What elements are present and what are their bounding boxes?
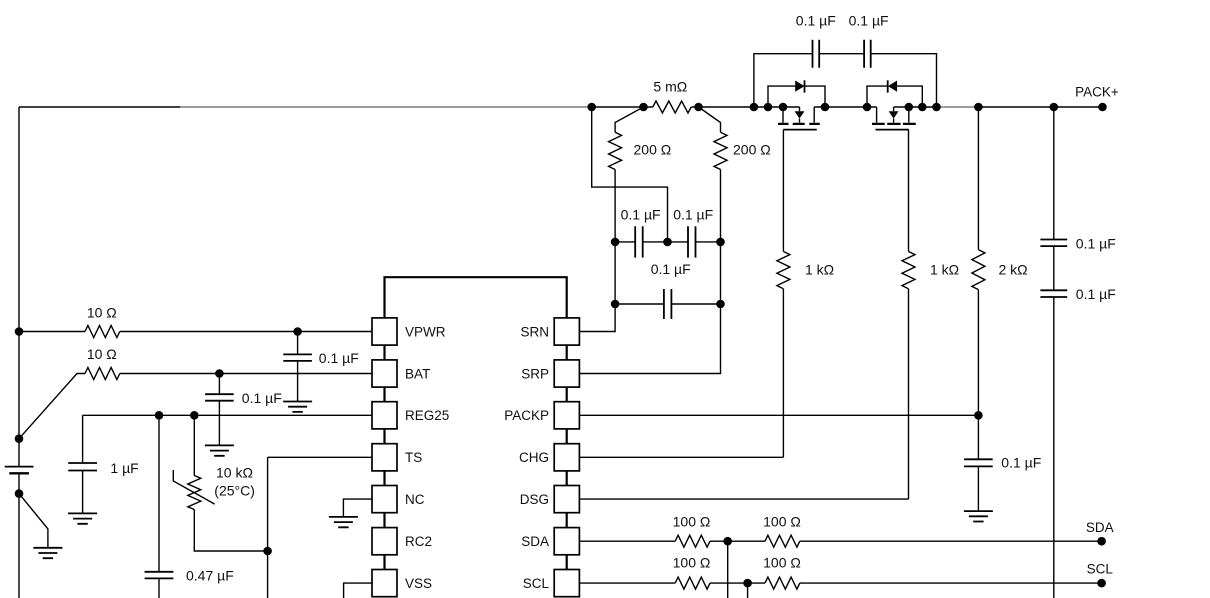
capacitor C7 0.1uF (PACKP) plates (964, 459, 993, 466)
ground C7 (964, 511, 993, 521)
U1 pin TS box (372, 444, 397, 471)
wire top rail gray segment (BAT+ net) (180, 106, 592, 108)
wire VPWR row right (120, 331, 372, 333)
capacitor C1 0.1uF top left plates (813, 40, 820, 68)
svg-text:SDA: SDA (521, 534, 549, 549)
svg-text:100 Ω: 100 Ω (673, 513, 711, 529)
transistor Q1 channel bars (778, 123, 820, 125)
thermistor RT1 zigzag (188, 476, 201, 510)
svg-text:VPWR: VPWR (405, 324, 446, 339)
wire top rail to sense resistor (592, 106, 653, 108)
capacitor C_bat 0.1uF lead and plates (218, 374, 220, 395)
resistor R8 100 Ohm (SDA inner) (675, 535, 710, 547)
wire SCL middle (710, 582, 765, 584)
U1 pin REG25 box (372, 402, 397, 429)
node rail/top-cap right (932, 103, 941, 112)
transistor Q2 channel bars (872, 123, 916, 125)
wire battery minus diagonal to ground (19, 494, 48, 548)
wire PACK+ filter column (1053, 107, 1055, 240)
svg-text:SCL: SCL (1087, 562, 1114, 577)
svg-text:1 kΩ: 1 kΩ (930, 262, 959, 278)
U1 pin NC box (372, 486, 397, 513)
wire R4 bottom to cap row1 (720, 170, 722, 242)
wire 2k column lower to PACKP node (977, 290, 979, 460)
wire sense resistor to FET1 source (691, 106, 799, 108)
wire REG25 row (83, 414, 372, 416)
wire R3 bottom to cap row1 (614, 170, 616, 242)
transistor Q2 body arrow (893, 107, 895, 123)
node rail/Q1 drain (821, 103, 830, 112)
resistor R3 200 Ohm left leads (615, 107, 643, 132)
node rail/PACK filter column (1050, 103, 1059, 112)
node REG25/RT1 (190, 411, 199, 420)
svg-text:100 Ω: 100 Ω (673, 555, 711, 571)
wire 2k column upper (977, 107, 979, 250)
U1 pin VPWR box (372, 318, 397, 345)
thermistor RT1 10k lead (193, 415, 195, 475)
capacitor C8 0.1uF plates (1040, 240, 1067, 247)
node cap row2 right (716, 300, 725, 309)
wire BAT row right (120, 373, 372, 375)
wire SDA to terminal (800, 540, 1102, 542)
svg-text:VSS: VSS (405, 576, 432, 591)
transistor Q2 gate lead down (908, 130, 910, 252)
wire SRN pin lead (579, 304, 615, 332)
wire center tap from rail to cap row1 middle (592, 107, 668, 242)
wire TS column (267, 457, 269, 598)
node SDA middle (723, 537, 732, 546)
svg-text:0.1 µF: 0.1 µF (621, 206, 661, 222)
U1 pin RC2 box (372, 528, 397, 555)
svg-text:0.1 µF: 0.1 µF (242, 390, 282, 406)
svg-text:0.1 µF: 0.1 µF (673, 206, 713, 222)
resistor R9 100 Ohm (SDA outer) (765, 535, 800, 547)
node rail/top-cap left (750, 103, 759, 112)
wire NC stub (343, 499, 372, 517)
resistor R4 200 Ohm zigzag (714, 132, 727, 169)
node cap row1 middle (663, 238, 672, 247)
node PACKP/2k (974, 411, 983, 420)
svg-text:0.1 µF: 0.1 µF (319, 350, 359, 366)
U1 right pin chain (566, 345, 568, 569)
capacitor C6 0.1uF row2 (615, 303, 664, 305)
ground C_reg (68, 513, 97, 523)
svg-text:1 kΩ: 1 kΩ (805, 262, 834, 278)
transistor Q2 source stub (908, 107, 910, 123)
node rail/Q2 source (905, 103, 914, 112)
svg-text:10 Ω: 10 Ω (87, 346, 117, 362)
wire row1 middle (643, 241, 688, 243)
wire SRP column row1 to row2 (720, 242, 722, 304)
svg-text:CHG: CHG (519, 450, 549, 465)
wire 2k tap to PACK+ terminal (978, 106, 1102, 108)
resistor R11 100 Ohm (SCL outer) (765, 577, 800, 589)
wire top gate caps loop (754, 54, 937, 107)
wire SDA row from pin (579, 540, 675, 542)
capacitor C3 0.47uF column (158, 415, 160, 572)
wire SDA middle (710, 540, 765, 542)
resistor R1 10 Ohm (VPWR) (85, 326, 120, 338)
svg-text:0.1 µF: 0.1 µF (849, 12, 889, 28)
resistor R5 1k (CHG gate) zigzag (777, 252, 790, 289)
svg-text:0.1 µF: 0.1 µF (651, 261, 691, 277)
svg-text:SRP: SRP (521, 366, 549, 381)
node SDA terminal (1097, 537, 1106, 546)
node rail/Q2 drain (863, 103, 872, 112)
node PACK+ terminal (1098, 103, 1107, 112)
svg-text:0.1 µF: 0.1 µF (1076, 286, 1116, 302)
node VPWR/C_vpwr (293, 327, 302, 336)
resistor R_sense 5 mOhm (653, 101, 691, 113)
transistor Q2 drain stub (876, 107, 878, 123)
wire VSS stub (344, 583, 372, 598)
wire FET1 drain to FET2 drain (814, 106, 876, 108)
svg-text:SCL: SCL (523, 576, 550, 591)
wire top rail left black segment (19, 106, 180, 108)
ground NC (329, 517, 358, 527)
svg-text:10 Ω: 10 Ω (87, 304, 117, 320)
wire battery minus down (18, 473, 20, 598)
node cap row2 left (611, 300, 620, 309)
capacitor C9 0.1uF plates (1040, 290, 1067, 297)
op-amp U1 header outline (385, 277, 567, 318)
node rail/Q1 diode (764, 103, 773, 112)
resistor R2 10 Ohm (BAT) (85, 368, 120, 380)
U1 pin SDA box (554, 528, 579, 555)
wire SRN column row1 to row2 (614, 242, 616, 304)
wire SCL node down (747, 583, 749, 598)
node rail/2k column (974, 103, 983, 112)
wire FET2 source to cap tap (894, 106, 938, 108)
wire SCL to terminal (800, 582, 1102, 584)
node rail/Q2 diode (918, 103, 927, 112)
node battery/VPWR tap (15, 327, 24, 336)
node rail/R3 (639, 103, 648, 112)
svg-text:RC2: RC2 (405, 534, 432, 549)
wire R5 to CHG row (782, 289, 784, 458)
battery cell B1 short plate (9, 472, 29, 474)
capacitor C4 0.1uF row1 left (615, 241, 635, 243)
wire SCL row from pin (579, 582, 675, 584)
capacitor C_vpwr 0.1uF lead and plates (297, 332, 299, 355)
U1 pin BAT box (372, 360, 397, 387)
U1 left pin chain (383, 345, 385, 569)
resistor R10 100 Ohm (SCL inner) (675, 577, 710, 589)
U1 pin PACKP box (554, 402, 579, 429)
node rail/Q1 source (779, 103, 788, 112)
svg-text:(25°C): (25°C) (214, 482, 255, 498)
wire left battery vertical upper (18, 107, 20, 467)
svg-text:5 mΩ: 5 mΩ (653, 79, 687, 95)
U1 pin CHG box (554, 444, 579, 471)
resistor R3 200 Ohm zigzag (609, 132, 622, 169)
svg-text:1 µF: 1 µF (110, 460, 138, 476)
node rail/center-tap (587, 103, 596, 112)
node battery/BAT tap (15, 434, 24, 443)
svg-text:REG25: REG25 (405, 408, 449, 423)
capacitor C2 0.1uF top right plates (864, 40, 871, 68)
resistor R7 2k zigzag (972, 250, 985, 290)
node TS/RT1 (263, 547, 272, 556)
svg-text:NC: NC (405, 492, 425, 507)
U1 pin SCL box (554, 570, 579, 597)
svg-text:DSG: DSG (520, 492, 549, 507)
svg-text:2 kΩ: 2 kΩ (999, 262, 1028, 278)
transistor Q1 drain stub (813, 107, 815, 123)
ground C_bat (205, 445, 234, 455)
wire R6 to DSG row (908, 289, 910, 499)
svg-text:SRN: SRN (520, 324, 549, 339)
wire SDA node down (727, 541, 729, 598)
wire PACKP row (579, 414, 978, 416)
transistor Q2 gate plate (876, 129, 909, 131)
svg-text:200 Ω: 200 Ω (634, 142, 672, 158)
wire SRP pin lead (579, 304, 720, 374)
node BAT/C_bat (215, 369, 224, 378)
capacitor C5 0.1uF row1 right (688, 226, 696, 257)
node SCL middle (743, 579, 752, 588)
U1 pin VSS box (372, 570, 397, 597)
node battery minus (15, 489, 24, 498)
node rail/R4 (694, 103, 703, 112)
wire thermistor bottom to TS node (194, 510, 267, 552)
svg-text:PACK+: PACK+ (1075, 85, 1119, 100)
wire gray segment before 2k tap (938, 106, 978, 108)
svg-text:100 Ω: 100 Ω (763, 555, 801, 571)
node cap row1 right (716, 238, 725, 247)
wire CHG row (579, 456, 783, 458)
svg-text:0.1 µF: 0.1 µF (1001, 455, 1041, 471)
node SCL terminal (1097, 579, 1106, 588)
svg-text:0.1 µF: 0.1 µF (796, 12, 836, 28)
ground battery (33, 548, 62, 558)
wire DSG row (579, 498, 908, 500)
node REG25/C3 (155, 411, 164, 420)
U1 pin SRP box (554, 360, 579, 387)
U1 pin SRN box (554, 318, 579, 345)
capacitor C_reg 1uF lead and plates (82, 415, 84, 463)
svg-text:200 Ω: 200 Ω (733, 142, 771, 158)
svg-text:PACKP: PACKP (504, 408, 549, 423)
battery cell B1 long plate (5, 466, 34, 468)
transistor Q1 source stub (782, 107, 784, 123)
U1 pin DSG box (554, 486, 579, 513)
svg-text:0.1 µF: 0.1 µF (1076, 235, 1116, 251)
node cap row1 left (611, 238, 620, 247)
transistor Q1 body diode (768, 86, 825, 107)
resistor R6 1k (DSG gate) zigzag (902, 252, 915, 289)
transistor Q1 body arrow (799, 107, 801, 123)
wire BAT diagonal from battery plus (19, 374, 85, 439)
svg-text:TS: TS (405, 450, 422, 465)
resistor R4 200 Ohm right leads (699, 107, 721, 132)
wire TS row (268, 456, 372, 458)
transistor Q1 gate plate (783, 129, 817, 131)
svg-text:100 Ω: 100 Ω (763, 513, 801, 529)
svg-text:BAT: BAT (405, 366, 430, 381)
svg-text:SDA: SDA (1086, 520, 1114, 535)
svg-text:10 kΩ: 10 kΩ (216, 465, 253, 481)
ground C_vpwr (283, 402, 312, 412)
wire PACK- column down (1053, 297, 1055, 598)
wire VPWR row left (19, 331, 85, 333)
thermistor RT1 strike line (173, 470, 214, 504)
transistor Q2 body diode (867, 86, 922, 107)
transistor Q1 gate lead down (782, 130, 784, 252)
svg-text:0.47 µF: 0.47 µF (186, 568, 234, 584)
